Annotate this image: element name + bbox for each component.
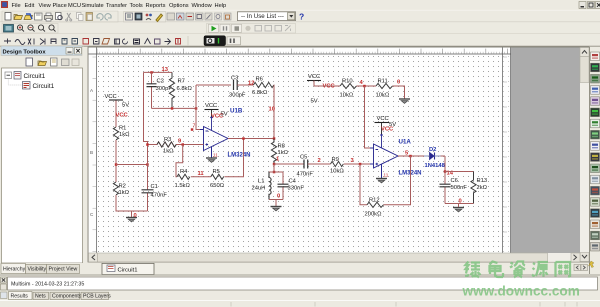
junction tank top bbox=[273, 171, 276, 174]
junction node1 bbox=[273, 163, 276, 166]
junction R12 right bbox=[409, 155, 412, 158]
svg-text:11: 11 bbox=[384, 173, 389, 178]
svg-text:Place: Place bbox=[53, 3, 67, 9]
wire tank top bbox=[269, 171, 283, 173]
svg-text:File: File bbox=[12, 3, 21, 9]
net label 4 bbox=[360, 80, 364, 86]
copy bbox=[77, 13, 84, 21]
WATERMARK bbox=[462, 261, 580, 299]
svg-text:C1: C1 bbox=[151, 184, 158, 190]
svg-text:Circuit1: Circuit1 bbox=[24, 73, 46, 80]
new doc bbox=[5, 13, 11, 21]
svg-text:U1B: U1B bbox=[230, 108, 243, 115]
ground (U1A) bbox=[376, 179, 387, 183]
svg-text:2kΩ: 2kΩ bbox=[477, 185, 488, 191]
net label 1 bbox=[276, 157, 280, 163]
svg-text:0: 0 bbox=[277, 194, 280, 200]
svg-text:10kΩ: 10kΩ bbox=[340, 93, 354, 99]
white sheet bbox=[89, 48, 512, 254]
svg-text:10: 10 bbox=[269, 107, 275, 113]
wire R6 to output riser bbox=[248, 85, 274, 139]
net label 0 (R11) bbox=[397, 80, 400, 86]
wire VCC1 to R1 bbox=[115, 101, 117, 128]
panel bottom tabs bbox=[0, 263, 84, 274]
net label 0 (output) bbox=[459, 199, 462, 205]
ground (divider) bbox=[126, 211, 137, 222]
svg-text:Hierarchy: Hierarchy bbox=[3, 267, 26, 273]
resistor R4 bbox=[175, 169, 191, 189]
svg-text:R12: R12 bbox=[369, 198, 380, 204]
junction output/R8 bbox=[273, 137, 276, 140]
svg-text:1kΩ: 1kΩ bbox=[119, 132, 130, 138]
resistor R8 bbox=[271, 139, 288, 165]
wire output bottom rail bbox=[445, 204, 474, 208]
wire node13 riser bbox=[144, 72, 148, 164]
svg-text:PCB Layers: PCB Layers bbox=[83, 294, 111, 300]
resistor R1 bbox=[113, 126, 130, 140]
svg-text:1.5kΩ: 1.5kΩ bbox=[175, 183, 191, 189]
svg-text:24uH: 24uH bbox=[252, 186, 266, 192]
junction feedback/input node bbox=[195, 107, 198, 110]
resistor R6 bbox=[252, 77, 274, 97]
ground (output) bbox=[453, 208, 464, 212]
svg-text:200kΩ: 200kΩ bbox=[365, 212, 383, 218]
wire R9 to U1A plus bbox=[344, 163, 374, 165]
svg-text:1N4148: 1N4148 bbox=[425, 163, 446, 169]
svg-text:VCC: VCC bbox=[377, 116, 389, 122]
toolbar row3 bbox=[0, 24, 600, 34]
svg-text:VCC: VCC bbox=[211, 114, 224, 120]
svg-text:Multisim - 2014-03-23 21:27:: Multisim - 2014-03-23 21:27:35 bbox=[11, 282, 84, 288]
wire tank stem bbox=[273, 164, 275, 172]
svg-text:?: ? bbox=[299, 12, 304, 22]
svg-text:10kΩ: 10kΩ bbox=[376, 93, 390, 99]
wire node4 to U1A minus bbox=[365, 86, 374, 148]
capacitor C2 bbox=[147, 72, 173, 108]
net label 5 bbox=[405, 151, 409, 157]
svg-text:R4: R4 bbox=[180, 169, 188, 175]
pin label 11 (U1A) bbox=[384, 173, 389, 178]
svg-text:0: 0 bbox=[459, 199, 462, 205]
svg-text:Options: Options bbox=[169, 3, 189, 9]
svg-text:R9: R9 bbox=[332, 157, 339, 163]
resistor R9 bbox=[330, 157, 344, 175]
wire C3 branch bbox=[196, 84, 231, 86]
svg-text:View: View bbox=[39, 3, 52, 9]
svg-text:R8: R8 bbox=[278, 144, 285, 150]
redo bbox=[105, 14, 111, 20]
net label 10 bbox=[269, 107, 275, 113]
svg-text:Project View: Project View bbox=[49, 267, 78, 273]
svg-text:R10: R10 bbox=[342, 79, 353, 85]
wire R11 to ground bbox=[393, 86, 405, 99]
svg-text:www.downcc.com: www.downcc.com bbox=[462, 284, 580, 299]
wire C5 to R9 bbox=[308, 163, 331, 165]
wire U1A output bbox=[398, 156, 445, 172]
label U1A bbox=[399, 139, 412, 146]
resistor R7 bbox=[169, 72, 192, 108]
svg-text:6.8kΩ: 6.8kΩ bbox=[252, 90, 268, 96]
wire node1 to C5 bbox=[274, 163, 304, 165]
tab row bbox=[88, 262, 589, 275]
menu bar bbox=[1, 1, 226, 9]
net label VCC (R10) bbox=[323, 84, 336, 90]
net label 13 bbox=[162, 67, 169, 73]
svg-text:VCC: VCC bbox=[205, 103, 217, 109]
In Use List combo bbox=[238, 12, 296, 21]
resistor R11 bbox=[376, 79, 393, 99]
svg-text:1kΩ: 1kΩ bbox=[163, 149, 174, 155]
svg-text:470nF: 470nF bbox=[151, 193, 168, 199]
svg-text:11: 11 bbox=[213, 153, 218, 158]
svg-text:Help: Help bbox=[215, 3, 227, 9]
resistor R5 bbox=[210, 169, 225, 189]
pin label 7 bbox=[193, 124, 196, 130]
diode D2 bbox=[424, 147, 446, 169]
svg-text:VCC: VCC bbox=[323, 84, 336, 90]
svg-text:Simulate: Simulate bbox=[82, 3, 104, 9]
svg-text:7: 7 bbox=[193, 124, 196, 130]
wire R2 to ground rail bbox=[116, 195, 148, 211]
svg-text:VCC: VCC bbox=[116, 113, 129, 119]
svg-text:D2: D2 bbox=[429, 147, 436, 153]
svg-text:VCC: VCC bbox=[308, 74, 320, 80]
open folder bbox=[14, 15, 23, 20]
svg-text:B: B bbox=[90, 150, 93, 155]
svg-text:LM324N: LM324N bbox=[228, 152, 251, 158]
status bar bbox=[0, 300, 600, 302]
ground (U1B) bbox=[206, 158, 217, 162]
junction R5 feedback bbox=[242, 137, 245, 140]
wire U1B output bbox=[228, 138, 274, 140]
op-amp U1B bbox=[200, 117, 228, 158]
svg-text:R3: R3 bbox=[164, 137, 171, 143]
svg-text:Visibility: Visibility bbox=[28, 267, 47, 273]
junction node14 bbox=[444, 170, 447, 173]
svg-text:0: 0 bbox=[397, 80, 400, 86]
svg-text:11: 11 bbox=[198, 171, 205, 177]
svg-text:-- In Use List ---: -- In Use List --- bbox=[241, 13, 284, 20]
junction R7 bottom bbox=[171, 107, 174, 110]
svg-text:1kΩ: 1kΩ bbox=[119, 190, 130, 196]
wire tank bottom bbox=[269, 200, 283, 207]
svg-text:330nF: 330nF bbox=[288, 186, 305, 192]
run switch bbox=[204, 36, 226, 46]
wire R12 loop bbox=[360, 156, 411, 205]
resistor R12 bbox=[365, 198, 384, 218]
svg-text:R1: R1 bbox=[119, 126, 126, 132]
design toolbox panel bbox=[0, 46, 84, 275]
net label 2 bbox=[318, 158, 321, 164]
capacitor C3 bbox=[229, 76, 248, 99]
wire divider node bbox=[116, 164, 148, 166]
resistor R10 bbox=[340, 79, 357, 99]
svg-text:C4: C4 bbox=[289, 179, 297, 185]
net label 0 (divider gnd) bbox=[134, 213, 137, 219]
pin label 11 (U1B) bbox=[213, 153, 218, 158]
net label VCC (U1A) bbox=[381, 127, 394, 133]
instruments toolbar bbox=[589, 47, 600, 274]
svg-text:10kΩ: 10kΩ bbox=[330, 169, 344, 175]
ground (R11) bbox=[399, 99, 410, 103]
svg-text:VCC: VCC bbox=[381, 127, 394, 133]
svg-text:R13: R13 bbox=[477, 178, 488, 184]
wire R4 tap bbox=[176, 145, 183, 177]
label LM324N (U1B) bbox=[228, 152, 251, 158]
preview bbox=[56, 13, 63, 20]
svg-text:Nets: Nets bbox=[35, 294, 46, 300]
svg-text:MCU: MCU bbox=[68, 3, 81, 9]
junction U1B minus corner bbox=[191, 128, 194, 131]
capacitor C5 bbox=[297, 155, 314, 178]
undo bbox=[97, 14, 103, 20]
svg-text:300pF: 300pF bbox=[229, 93, 246, 99]
svg-text:Window: Window bbox=[192, 3, 213, 9]
resistor R13 bbox=[471, 172, 488, 204]
net label 0 (tank) bbox=[277, 194, 280, 200]
wire C2/R7 bottom bbox=[152, 107, 197, 109]
net label VCC (U1B) bbox=[211, 114, 224, 120]
power VCC2 (U1B) bbox=[205, 103, 228, 118]
paste bbox=[86, 13, 93, 21]
junction C2 top bbox=[150, 71, 153, 74]
svg-text:L1: L1 bbox=[258, 179, 264, 185]
wire R1 to divider node bbox=[115, 140, 117, 182]
wire C2/R7 top bbox=[144, 71, 173, 73]
spreadsheet view bbox=[0, 275, 600, 307]
wire R10-R11 bbox=[357, 85, 377, 87]
group2 icons bbox=[124, 12, 166, 23]
svg-text:5V: 5V bbox=[311, 99, 318, 105]
svg-text:Tools: Tools bbox=[130, 3, 143, 9]
svg-text:R7: R7 bbox=[178, 79, 185, 85]
v scrollbar bbox=[580, 48, 589, 254]
ruler corner + bands bbox=[89, 48, 512, 254]
capacitor C4 bbox=[278, 172, 305, 200]
svg-text:13: 13 bbox=[162, 67, 169, 73]
wire R5 to output bbox=[224, 139, 243, 177]
svg-text:Circuit1: Circuit1 bbox=[33, 83, 55, 90]
svg-text:2: 2 bbox=[318, 158, 321, 164]
power VCC4 (U1A) bbox=[375, 116, 397, 134]
wire to U1B minus input bbox=[196, 85, 204, 130]
junction R3 left bbox=[146, 143, 149, 146]
svg-text:Components: Components bbox=[52, 294, 82, 300]
save bbox=[35, 13, 43, 20]
print bbox=[45, 13, 53, 21]
svg-text:VCC: VCC bbox=[105, 94, 117, 100]
window buttons bbox=[579, 2, 600, 9]
net label 11 bbox=[198, 171, 205, 177]
net label 12 bbox=[248, 81, 254, 87]
svg-text:12: 12 bbox=[248, 81, 254, 87]
h scrollbar bbox=[89, 253, 581, 262]
svg-text:U1A: U1A bbox=[399, 139, 412, 146]
net label 9 bbox=[178, 139, 182, 145]
net label 3 bbox=[351, 158, 355, 164]
schematic viewport bbox=[88, 47, 589, 275]
svg-text:Design Toolbox: Design Toolbox bbox=[3, 50, 47, 56]
wire R4-R5 bbox=[191, 176, 211, 178]
power VCC3 (R10) bbox=[307, 74, 321, 105]
svg-text:R11: R11 bbox=[378, 79, 388, 85]
junction U1B plus tap bbox=[182, 143, 185, 146]
svg-text:Reports: Reports bbox=[146, 3, 166, 9]
label LM324N (U1A) bbox=[399, 171, 422, 177]
wire node14 to R13 bbox=[445, 171, 474, 173]
svg-text:C2: C2 bbox=[157, 79, 164, 85]
svg-text:470nF: 470nF bbox=[297, 172, 314, 178]
op-amp U1A bbox=[370, 134, 398, 178]
svg-text:R5: R5 bbox=[213, 169, 220, 175]
junction R12 tap bbox=[359, 163, 362, 166]
label U1B bbox=[230, 108, 243, 115]
svg-text:C6: C6 bbox=[451, 178, 458, 184]
svg-text:5V: 5V bbox=[122, 103, 129, 109]
wire VCC3 to R10 bbox=[314, 85, 340, 87]
open sample bbox=[24, 14, 33, 20]
cut bbox=[66, 13, 72, 21]
toolbar row4 bbox=[0, 36, 600, 46]
svg-text:650Ω: 650Ω bbox=[210, 183, 225, 189]
svg-text:R2: R2 bbox=[119, 184, 126, 190]
junction node4 bbox=[363, 85, 366, 88]
svg-text:1kΩ: 1kΩ bbox=[278, 150, 289, 156]
inductor L1 bbox=[252, 172, 272, 200]
svg-text:6.8kΩ: 6.8kΩ bbox=[177, 86, 193, 92]
capacitor C1 bbox=[142, 165, 168, 212]
panel toolbar icons bbox=[26, 58, 79, 66]
junction divider node bbox=[115, 163, 118, 166]
svg-text:500nF: 500nF bbox=[451, 185, 468, 191]
svg-text:0: 0 bbox=[134, 213, 137, 219]
svg-text:Circuit1: Circuit1 bbox=[118, 267, 138, 273]
power VCC1 5V bbox=[105, 94, 130, 109]
tree area bbox=[2, 68, 83, 263]
svg-text:C3: C3 bbox=[231, 76, 238, 82]
ground (tank) bbox=[271, 207, 282, 211]
spreadsheet tabs bbox=[1, 292, 112, 300]
svg-text:Results: Results bbox=[11, 294, 29, 300]
svg-text:Transfer: Transfer bbox=[106, 3, 127, 9]
svg-text:R6: R6 bbox=[256, 77, 263, 83]
svg-text:Edit: Edit bbox=[25, 3, 35, 9]
toolbar row2 bbox=[0, 10, 600, 22]
svg-text:C5: C5 bbox=[300, 155, 307, 161]
junction C1 top bbox=[146, 163, 149, 166]
net label VCC (left) bbox=[116, 113, 129, 119]
resistor R3 bbox=[148, 137, 204, 155]
net label 14 bbox=[447, 171, 454, 177]
capacitor C6 bbox=[440, 172, 468, 204]
simulation buttons bbox=[207, 24, 296, 34]
resistor R2 bbox=[113, 182, 129, 196]
